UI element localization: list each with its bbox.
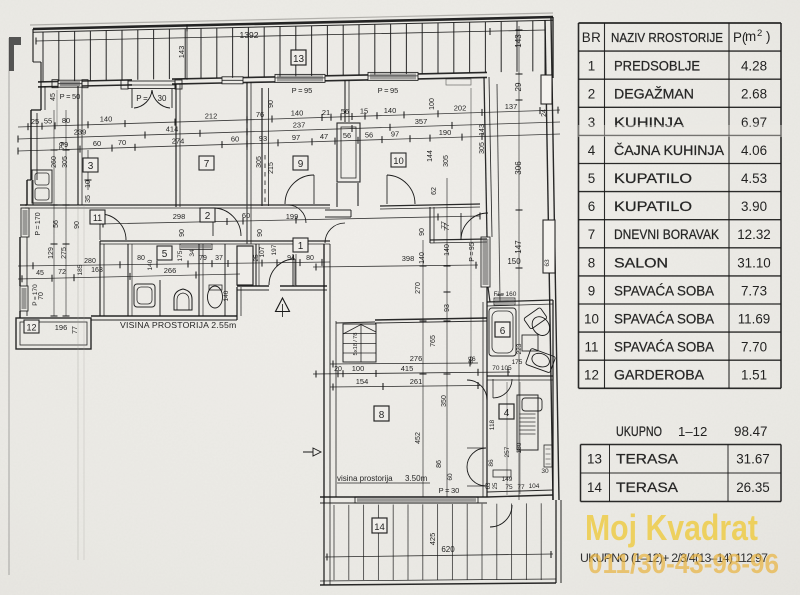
- svg-text:Moj Kvadrat: Moj Kvadrat: [585, 507, 758, 548]
- bath block inner walls: [127, 244, 129, 316]
- kitchen counter: [517, 395, 538, 450]
- svg-text:12: 12: [26, 323, 36, 333]
- svg-text:196: 196: [55, 323, 68, 332]
- svg-text:63: 63: [486, 482, 492, 489]
- sink bath6: [525, 348, 555, 373]
- svg-text:79: 79: [59, 142, 66, 150]
- svg-text:266: 266: [164, 266, 177, 275]
- svg-text:BR: BR: [582, 30, 602, 45]
- svg-text:): ): [766, 29, 770, 44]
- svg-text:6: 6: [588, 199, 595, 214]
- left outer wall with step: [40, 86, 42, 110]
- hatched wardrobe strip y246: [180, 244, 212, 250]
- svg-text:7.73: 7.73: [741, 283, 767, 298]
- svg-text:260: 260: [51, 156, 58, 168]
- svg-text:143: 143: [177, 46, 186, 59]
- svg-text:30: 30: [158, 94, 167, 103]
- salon bottom wall with window: [320, 496, 487, 498]
- double door P=30 with swing arcs: [128, 81, 175, 89]
- light rect under wall 446-471: [446, 79, 471, 85]
- svg-text:11: 11: [93, 213, 102, 223]
- bath 6 top wall: [487, 300, 553, 302]
- svg-text:93: 93: [444, 304, 451, 312]
- svg-text:70: 70: [38, 292, 45, 300]
- svg-text:14: 14: [587, 480, 602, 495]
- svg-text:80: 80: [306, 255, 314, 262]
- svg-text:TERASA: TERASA: [616, 480, 678, 495]
- svg-text:10: 10: [393, 156, 404, 167]
- terrace 14 dim line 620: [325, 554, 553, 557]
- svg-text:56: 56: [365, 131, 373, 140]
- dim row bath upper: [18, 262, 330, 266]
- svg-text:P = 95: P = 95: [378, 86, 399, 95]
- left outer wall lower (bath block): [20, 204, 27, 206]
- svg-text:13: 13: [587, 452, 602, 467]
- partition x293: [292, 254, 294, 286]
- svg-text:SPAVAĆA SOBA: SPAVAĆA SOBA: [614, 340, 714, 355]
- right outer wall double slanted: [545, 20, 553, 500]
- svg-text:63: 63: [544, 259, 551, 267]
- WC bath6: [523, 307, 554, 340]
- svg-text:011/30-43-98-96: 011/30-43-98-96: [588, 548, 779, 579]
- svg-text:DEGAŽMAN: DEGAŽMAN: [614, 87, 694, 102]
- corridor bottom wall y241: [100, 240, 330, 242]
- svg-text:86: 86: [436, 460, 443, 468]
- door arc bath6 entry: [493, 379, 512, 398]
- svg-text:26.35: 26.35: [736, 480, 770, 495]
- svg-text:55: 55: [44, 117, 52, 126]
- room 10 right slanted wall double: [484, 77, 487, 237]
- svg-text:85: 85: [468, 356, 475, 364]
- svg-text:75: 75: [505, 484, 513, 491]
- svg-text:1.51: 1.51: [741, 368, 767, 383]
- svg-text:140: 140: [147, 259, 154, 270]
- svg-text:29: 29: [514, 82, 523, 91]
- stairs: [343, 324, 376, 362]
- svg-text:137: 137: [505, 102, 518, 111]
- svg-text:KUPATILO: KUPATILO: [614, 199, 692, 214]
- svg-text:8: 8: [379, 410, 385, 421]
- svg-text:P =: P =: [136, 94, 148, 103]
- svg-text:14: 14: [374, 522, 385, 533]
- svg-text:20: 20: [334, 366, 342, 373]
- scan fade stripe over row 3: [578, 125, 782, 137]
- svg-text:3: 3: [88, 161, 94, 172]
- terrace 13 left edge: [32, 29, 34, 62]
- kitchen 4 walls: [552, 300, 554, 500]
- svg-text:7: 7: [588, 227, 595, 242]
- svg-text:197: 197: [271, 244, 278, 255]
- room boxes upper: [83, 158, 98, 172]
- svg-text:60: 60: [447, 473, 454, 481]
- svg-text:45: 45: [36, 270, 44, 277]
- svg-text:107: 107: [259, 246, 266, 257]
- salon dim 154/261 row: [330, 386, 480, 388]
- hall upper door arc: [325, 223, 345, 243]
- svg-text:62: 62: [431, 187, 438, 195]
- svg-text:4.53: 4.53: [741, 171, 767, 186]
- svg-text:80: 80: [137, 255, 145, 262]
- hall step wall below corridor: [325, 209, 351, 211]
- svg-text:175: 175: [512, 359, 523, 366]
- svg-text:15: 15: [360, 107, 368, 116]
- svg-text:239: 239: [74, 128, 87, 137]
- svg-text:3.50m: 3.50m: [405, 474, 428, 483]
- kitchen bottom wall: [487, 495, 553, 497]
- svg-text:47: 47: [320, 132, 328, 141]
- svg-text:305: 305: [256, 156, 263, 168]
- hall dimension line y221: [100, 216, 480, 224]
- svg-text:11.69: 11.69: [738, 312, 771, 327]
- svg-text:GARDEROBA: GARDEROBA: [614, 368, 704, 383]
- room box 14: [372, 518, 387, 533]
- svg-text:274: 274: [172, 137, 185, 146]
- svg-text:72: 72: [58, 269, 66, 276]
- svg-text:7: 7: [204, 159, 210, 170]
- left vertical dim lines: [53, 110, 55, 316]
- svg-text:140: 140: [100, 115, 113, 124]
- terrace 13 right edge: [552, 17, 554, 78]
- window P=170 lower hatched: [20, 286, 28, 311]
- hall bottom wall y286: [237, 285, 269, 287]
- svg-text:97: 97: [391, 130, 399, 139]
- svg-text:280: 280: [84, 258, 96, 265]
- salon dim 415 row: [313, 372, 510, 374]
- salon top wall: [375, 318, 487, 320]
- double-leaf door salon/kitchen wall: [467, 448, 486, 467]
- svg-text:1392: 1392: [240, 30, 259, 40]
- svg-text:86: 86: [488, 459, 495, 467]
- washbasin arch fixture: [174, 289, 192, 310]
- svg-text:140: 140: [444, 244, 451, 256]
- svg-text:357: 357: [415, 117, 428, 126]
- svg-text:398: 398: [402, 254, 415, 263]
- svg-text:8: 8: [588, 255, 595, 270]
- door arc salon-kitchen: [467, 380, 487, 400]
- svg-text:118: 118: [489, 419, 496, 430]
- door arc room 2: [213, 208, 241, 236]
- svg-text:TERASA: TERASA: [616, 452, 678, 467]
- washer bath6: [522, 335, 538, 351]
- svg-text:m: m: [745, 29, 756, 44]
- faint extension lines below left wing: [246, 150, 248, 244]
- svg-text:5: 5: [588, 171, 595, 186]
- svg-text:45: 45: [50, 93, 57, 101]
- svg-text:104: 104: [529, 483, 540, 490]
- Fi=160 window: [494, 298, 515, 305]
- svg-text:149: 149: [502, 476, 513, 483]
- svg-text:90: 90: [179, 229, 186, 237]
- door arc room 9: [285, 175, 314, 204]
- svg-text:150: 150: [507, 257, 521, 266]
- svg-text:25: 25: [493, 482, 499, 489]
- svg-text:237: 237: [293, 121, 306, 130]
- scan paper left edge line: [8, 38, 10, 575]
- kitchen sink rounded: [522, 398, 542, 411]
- svg-text:35: 35: [85, 195, 92, 203]
- hall door arc in bottom wall: [269, 259, 295, 285]
- dim ticks right col: [516, 209, 523, 211]
- window sill 2: [222, 77, 243, 84]
- svg-text:P = 170: P = 170: [35, 212, 42, 235]
- door panel rect x237: [237, 246, 253, 285]
- partition x257: [255, 244, 257, 286]
- dim row C line: [18, 134, 560, 151]
- bathtub room 6: [489, 308, 516, 356]
- svg-text:2: 2: [205, 211, 211, 222]
- kitchen sink left wall: [32, 170, 52, 203]
- svg-text:5: 5: [162, 249, 168, 260]
- scan corner mark top-left: [9, 37, 21, 71]
- svg-text:1–12: 1–12: [678, 424, 707, 439]
- svg-text:ČAJNA KUHINJA: ČAJNA KUHINJA: [614, 143, 724, 158]
- door arc room 10: [387, 175, 415, 204]
- svg-text:2: 2: [588, 87, 595, 102]
- dim row bath lower: [18, 274, 240, 279]
- svg-text:2.68: 2.68: [741, 87, 767, 102]
- svg-text:212: 212: [205, 111, 218, 120]
- terrace internal dim 143: [186, 26, 188, 79]
- svg-text:KUPATILO: KUPATILO: [614, 171, 692, 186]
- svg-text:270: 270: [415, 282, 422, 294]
- svg-text:90: 90: [268, 100, 275, 108]
- dim row A line: [18, 110, 560, 127]
- corridor top wall y205: [25, 204, 330, 206]
- svg-text:185: 185: [77, 264, 84, 275]
- window rect on right wall middle: [543, 220, 555, 273]
- svg-text:140: 140: [223, 290, 230, 301]
- svg-text:visina prostorija: visina prostorija: [337, 474, 393, 483]
- wardrobe between rooms 9/10: [337, 123, 360, 182]
- svg-text:140: 140: [384, 106, 397, 115]
- svg-text:P = 95: P = 95: [469, 242, 476, 261]
- door arc degazman (opens up into room 10): [461, 213, 488, 240]
- svg-text:1: 1: [588, 59, 595, 74]
- room box 12: [24, 320, 39, 333]
- apartment top wall (south, double): [38, 86, 58, 88]
- svg-text:UKUPNO: UKUPNO: [616, 424, 662, 439]
- svg-text:VISINA PROSTORIJA 2.55m: VISINA PROSTORIJA 2.55m: [120, 320, 236, 330]
- svg-text:97: 97: [292, 133, 300, 142]
- svg-text:77: 77: [441, 221, 448, 229]
- svg-text:414: 414: [166, 125, 179, 134]
- svg-text:30: 30: [541, 468, 549, 475]
- svg-text:415: 415: [401, 364, 414, 373]
- radiator right wall: [544, 445, 552, 467]
- svg-text:298: 298: [173, 212, 186, 221]
- window sill P=95 right: [368, 72, 418, 80]
- svg-text:100: 100: [352, 364, 365, 373]
- svg-text:199: 199: [286, 212, 299, 221]
- svg-text:13: 13: [293, 54, 305, 65]
- room box 13: [291, 50, 306, 65]
- svg-text:306: 306: [514, 161, 523, 175]
- svg-text:12: 12: [584, 368, 599, 383]
- wall x100 (bath block left): [99, 241, 101, 316]
- svg-text:SALON: SALON: [614, 255, 668, 270]
- svg-text:P = 95: P = 95: [292, 86, 313, 95]
- salon interior left line: [335, 321, 337, 497]
- svg-text:60: 60: [231, 135, 239, 144]
- section arrow left of salon: [303, 448, 321, 456]
- terrace 13 hatch lines: [42, 32, 44, 82]
- svg-text:620: 620: [441, 545, 455, 554]
- svg-text:25: 25: [31, 117, 39, 126]
- svg-text:9: 9: [588, 283, 595, 298]
- svg-text:350: 350: [441, 395, 448, 407]
- room 12 protrusion outline double: [16, 318, 91, 349]
- svg-text:SPAVAĆA SOBA: SPAVAĆA SOBA: [614, 312, 714, 327]
- svg-text:4.28: 4.28: [741, 59, 767, 74]
- left wall between windows: [19, 237, 21, 286]
- svg-text:140: 140: [419, 252, 426, 264]
- svg-text:9: 9: [298, 159, 304, 170]
- washbasin square room5: [134, 284, 155, 307]
- room box 8: [374, 406, 389, 421]
- degazman walls: [429, 207, 431, 243]
- svg-text:305: 305: [62, 156, 69, 168]
- room box 6: [495, 322, 510, 337]
- svg-text:90: 90: [74, 221, 81, 229]
- dim line x471: [470, 88, 472, 365]
- svg-text:6: 6: [500, 326, 506, 337]
- svg-text:SPAVAĆA SOBA: SPAVAĆA SOBA: [614, 283, 714, 298]
- svg-text:100: 100: [429, 98, 436, 110]
- svg-text:147: 147: [514, 240, 523, 254]
- terrace 13 top edge heavy line: [33, 17, 553, 29]
- svg-text:79: 79: [199, 255, 207, 262]
- svg-text:37: 37: [215, 255, 223, 262]
- svg-text:PREDSOBLJE: PREDSOBLJE: [614, 59, 700, 74]
- right gallery verticals: [497, 84, 500, 302]
- svg-text:143: 143: [479, 124, 486, 136]
- svg-text:31.10: 31.10: [737, 255, 771, 270]
- svg-text:93: 93: [259, 134, 267, 143]
- terrace 14 hatch: [333, 505, 335, 580]
- svg-text:140: 140: [291, 109, 304, 118]
- svg-text:34: 34: [189, 249, 196, 257]
- svg-text:60: 60: [93, 139, 101, 148]
- salon vertical dim col x423: [422, 240, 424, 497]
- svg-text:NAZIV RROSTORIJE: NAZIV RROSTORIJE: [611, 30, 723, 45]
- dim row B line: [18, 122, 560, 139]
- svg-text:12.32: 12.32: [737, 227, 771, 242]
- svg-text:452: 452: [415, 432, 422, 444]
- bath6/kitchen divider: [487, 375, 553, 377]
- svg-text:275: 275: [61, 247, 68, 259]
- svg-text:77: 77: [517, 484, 525, 491]
- svg-text:21: 21: [322, 108, 330, 117]
- salon vertical dim col x447: [446, 178, 448, 497]
- svg-text:10: 10: [85, 180, 92, 188]
- terasa table: [581, 444, 782, 446]
- svg-text:4: 4: [588, 143, 596, 158]
- svg-text:76: 76: [256, 110, 264, 119]
- svg-text:175: 175: [177, 250, 184, 261]
- window P=95 on slanted wall (hatched): [481, 237, 490, 287]
- svg-text:56: 56: [341, 107, 349, 116]
- svg-text:P = 30: P = 30: [439, 486, 460, 495]
- svg-text:425: 425: [428, 533, 437, 546]
- door arc left wall corridor: [100, 214, 126, 240]
- svg-text:7.70: 7.70: [741, 340, 767, 355]
- wall rooms 3/7 x176: [175, 84, 177, 207]
- window sill P=50: [58, 80, 82, 87]
- terrace door arc: [490, 505, 512, 527]
- jog wall x237: [236, 287, 238, 320]
- svg-text:2: 2: [757, 28, 762, 39]
- svg-text:10: 10: [584, 312, 599, 327]
- wall kitchen right x78: [77, 86, 79, 205]
- svg-text:60: 60: [242, 211, 250, 220]
- svg-text:90: 90: [257, 229, 264, 237]
- svg-text:765: 765: [430, 335, 437, 347]
- stove burner hatch: [520, 413, 536, 415]
- svg-text:P = 50: P = 50: [60, 92, 81, 101]
- window sill P=95 left: [275, 74, 325, 82]
- svg-text:94: 94: [287, 255, 295, 262]
- svg-text:31.67: 31.67: [736, 452, 770, 467]
- walls above/below wardrobe: [344, 80, 346, 122]
- svg-text:90: 90: [419, 228, 426, 236]
- room box 4: [499, 404, 514, 419]
- svg-text:24: 24: [541, 109, 548, 117]
- svg-text:215: 215: [268, 162, 275, 174]
- small dim marks near room3: [85, 159, 92, 161]
- svg-text:180: 180: [516, 442, 523, 453]
- svg-text:143: 143: [514, 34, 523, 48]
- svg-text:1: 1: [298, 241, 304, 252]
- svg-text:3.90: 3.90: [741, 199, 767, 214]
- svg-text:257: 257: [504, 446, 511, 457]
- svg-text:Fi = 160: Fi = 160: [494, 291, 517, 298]
- kitchen dim verticals: [506, 382, 508, 495]
- kitchen/salon divider x487: [486, 287, 488, 497]
- table grid: [579, 22, 782, 24]
- svg-text:70 105: 70 105: [492, 365, 512, 372]
- svg-text:154: 154: [356, 377, 369, 386]
- window rect on right wall upper: [541, 75, 552, 104]
- window P=170 upper hatched: [21, 208, 29, 237]
- svg-text:261: 261: [410, 377, 423, 386]
- terrace 14 outline: [323, 503, 325, 585]
- radiator bottom right: [493, 470, 511, 477]
- svg-text:202: 202: [454, 104, 467, 113]
- svg-text:70: 70: [118, 138, 126, 147]
- svg-text:56: 56: [343, 131, 351, 140]
- svg-text:163: 163: [91, 267, 103, 274]
- svg-text:190: 190: [439, 128, 452, 137]
- svg-text:5x18 / 78: 5x18 / 78: [353, 333, 359, 356]
- room 1 door upper arc: [288, 205, 306, 223]
- lower wing left outer wall double: [323, 244, 325, 503]
- salon dim 276 row: [330, 363, 478, 364]
- svg-text:305: 305: [443, 155, 450, 167]
- wall rooms 7/9 x247 double with dash: [246, 82, 248, 244]
- svg-text:DNEVNI BORAVAK: DNEVNI BORAVAK: [614, 227, 719, 242]
- svg-text:98.47: 98.47: [734, 424, 768, 439]
- bottom wall of left wing (bath block): [91, 315, 237, 317]
- north arrow: [276, 298, 290, 312]
- WC oval: [208, 286, 223, 308]
- wall x262 (room 9 left): [261, 88, 263, 206]
- svg-text:276: 276: [410, 354, 423, 363]
- svg-text:305: 305: [479, 142, 486, 154]
- svg-text:144: 144: [427, 150, 434, 162]
- svg-text:11: 11: [585, 340, 599, 355]
- terrace dimension line 1392: [36, 30, 545, 41]
- svg-text:4.06: 4.06: [741, 143, 767, 158]
